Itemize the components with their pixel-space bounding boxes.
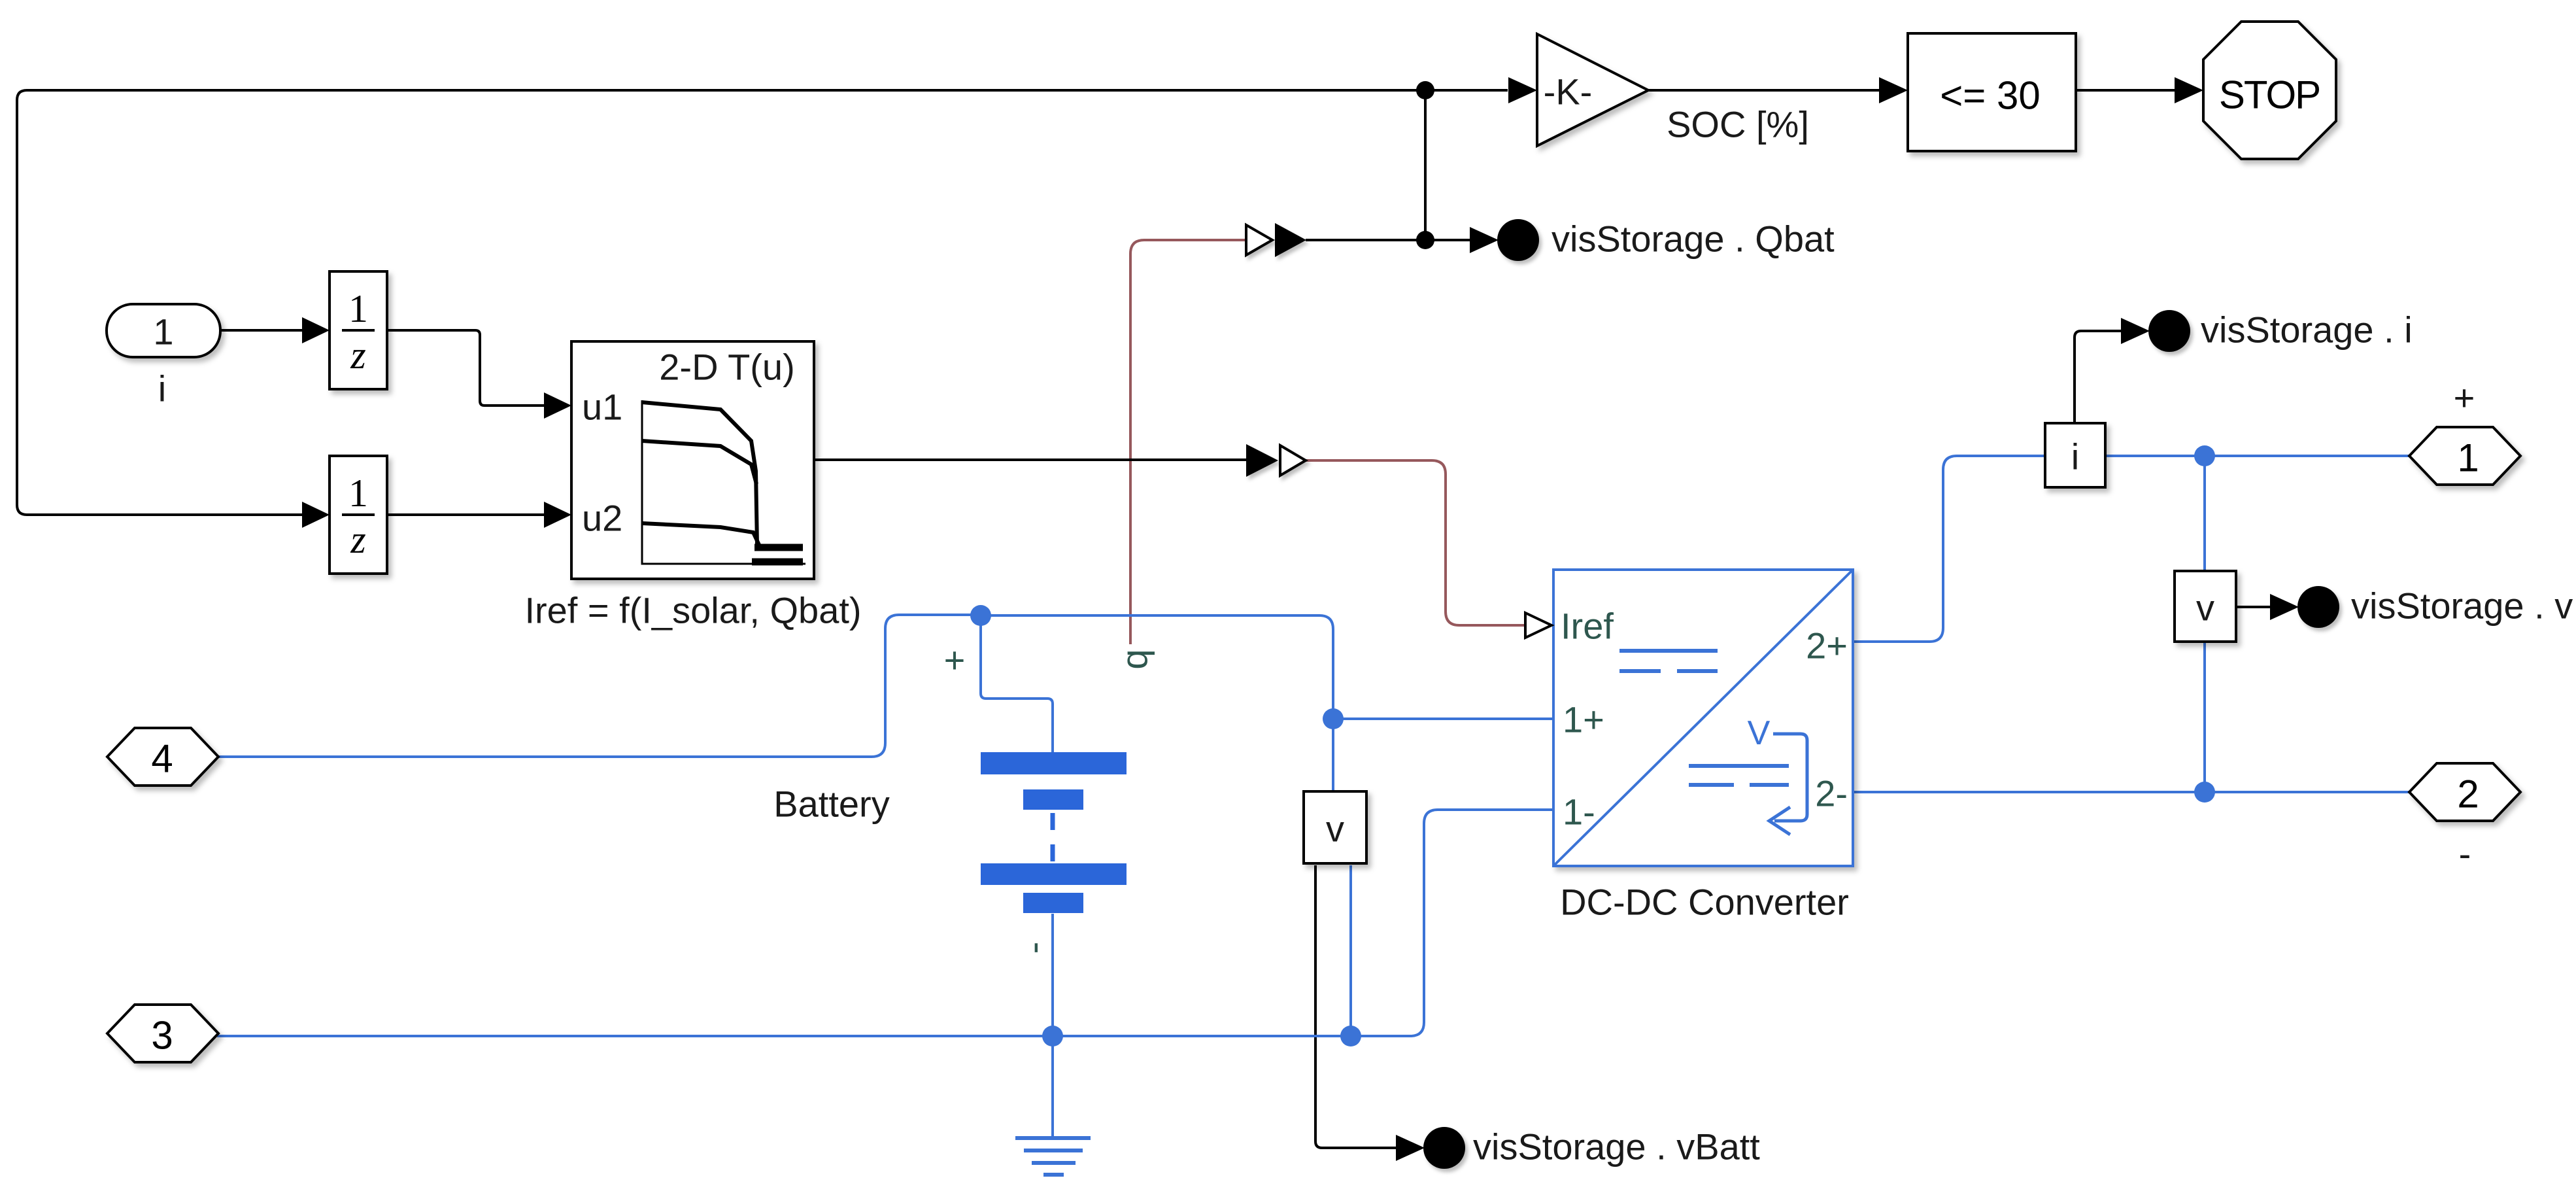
wire: current sensor i to visStorage.i <box>2075 331 2122 423</box>
wire: blue net from port 3 along bottom and up to converter 1- <box>217 810 1553 1036</box>
lookup table graph <box>642 400 805 564</box>
ground symbol <box>1015 1138 1091 1175</box>
wire: black feedback loop (top long wire + left vertical + into unit delay 2) <box>17 90 1508 515</box>
label: Battery <box>773 784 889 825</box>
block: unit delay 2 (1/z) <box>330 456 387 574</box>
svg-text:i: i <box>2071 436 2079 477</box>
svg-text:visStorage . vBatt: visStorage . vBatt <box>1473 1126 1760 1167</box>
converter port label 1+ <box>1563 699 1604 740</box>
svg-text:V: V <box>1748 714 1771 752</box>
block: STOP octagon <box>2203 22 2336 159</box>
wire: voltage sensor v to visStorage.v <box>2236 606 2270 608</box>
svg-text:1-: 1- <box>1563 791 1595 833</box>
arrowhead: into visStorage.v <box>2270 594 2299 620</box>
junction node: battery plus <box>970 605 991 626</box>
converter port label 1- <box>1563 791 1595 833</box>
label: minus below port 2 <box>2459 833 2471 874</box>
svg-text:z: z <box>350 334 365 377</box>
wire: blue converter 2+ output to current sensor i <box>1853 456 2045 642</box>
svg-text:2-: 2- <box>1815 773 1848 814</box>
block: unit delay 1 (1/z) <box>330 271 387 389</box>
signal conversion pair 1 (PS to Simulink): hollow + filled triangles <box>1246 223 1306 257</box>
svg-text:SOC [%]: SOC [%] <box>1667 104 1809 145</box>
wire: blue 1+ wire into converter <box>1333 718 1553 720</box>
label: SOC [%] <box>1667 104 1809 145</box>
converter port label Iref <box>1561 606 1614 647</box>
arrowhead: into gain <box>1508 77 1537 103</box>
wire: battery bottom plate to bottom net <box>1051 914 1054 1036</box>
svg-text:3: 3 <box>151 1014 173 1058</box>
converter port label 2- <box>1815 773 1848 814</box>
wire: PS charge signal q (dark red) from battery up to converter pair 1 <box>1130 240 1246 644</box>
wire: blue net battery plus node to converter 1+ corner <box>981 615 1333 719</box>
battery plates <box>981 752 1127 913</box>
wire: unit delay 2 to u2 input <box>387 513 544 516</box>
battery dashed electrolyte line <box>1051 813 1055 863</box>
block: relational operator <= 30 <box>1908 33 2076 151</box>
block: current sensor i <box>2045 423 2105 487</box>
port: output hexagon 2 <box>2409 763 2520 821</box>
converter DC symbol center <box>1689 766 1789 785</box>
svg-text:4: 4 <box>151 737 173 781</box>
svg-text:+: + <box>944 640 966 681</box>
svg-text:visStorage . i: visStorage . i <box>2201 309 2413 351</box>
svg-text:DC-DC Converter: DC-DC Converter <box>1560 882 1849 923</box>
block: DC-DC converter <box>1553 570 1853 866</box>
signal conversion pair 2 (Simulink to PS): filled + hollow triangles <box>1246 444 1306 477</box>
port: input hexagon 4 <box>107 728 218 786</box>
wire: vertical branch up from Qbat wire to top feedback wire <box>1424 90 1427 240</box>
svg-text:Iref = f(I_solar, Qbat): Iref = f(I_solar, Qbat) <box>524 590 861 631</box>
sink: visStorage.i <box>2148 309 2413 353</box>
wire: blue from 1+ node down to battery voltage sensor top <box>1332 719 1334 791</box>
wire: lookup table output to conversion pair 2 <box>814 458 1246 461</box>
block: battery voltage sensor v <box>1304 791 1366 863</box>
arrowhead: into u1 <box>544 392 571 419</box>
port: input hexagon 3 <box>107 1005 218 1062</box>
svg-text:2-D T(u): 2-D T(u) <box>659 347 794 388</box>
svg-text:1: 1 <box>348 472 368 515</box>
junction node: sensor bottom on bottom net <box>1340 1026 1361 1046</box>
wire: blue voltage sensor v to 2- net <box>2203 643 2206 792</box>
converter DC symbol upper left <box>1619 651 1718 671</box>
wire: blue net from port 4 up to battery plus node <box>218 615 981 757</box>
junction node: output port 2 branch <box>2194 782 2215 803</box>
svg-text:1: 1 <box>348 287 368 330</box>
port: output hexagon 1 <box>2409 427 2520 485</box>
converter Iref input triangle <box>1525 613 1551 638</box>
svg-text:1+: 1+ <box>1563 699 1604 740</box>
svg-text:STOP: STOP <box>2219 73 2320 117</box>
arrowhead: into relational operator <box>1879 77 1908 103</box>
wire: battery voltage sensor to visStorage.vBatt <box>1315 865 1397 1148</box>
wire: port1 to unit delay 1 <box>220 329 302 332</box>
arrowhead: into visStorage.i <box>2121 318 2150 344</box>
wire: relational operator to STOP <box>2076 89 2177 92</box>
svg-text:z: z <box>350 518 365 561</box>
svg-text:u1: u1 <box>582 387 622 428</box>
node label q (rotated) <box>1114 649 1155 669</box>
sink: visStorage.v <box>2297 585 2573 629</box>
wire: PS signal (dark red) from converter pair 2 to Iref port <box>1306 460 1525 625</box>
svg-text:q: q <box>1114 649 1155 669</box>
wire: blue from battery voltage sensor bottom to bottom net <box>1349 865 1352 1036</box>
junction node: output port 1 branch <box>2194 445 2215 466</box>
wire: bottom net to ground <box>1051 1036 1054 1137</box>
svg-text:visStorage . v: visStorage . v <box>2351 585 2573 627</box>
svg-text:1: 1 <box>153 311 173 353</box>
svg-text:1: 1 <box>2457 436 2479 480</box>
converter V feedback symbol <box>1748 714 1807 835</box>
block: gain -K- <box>1537 34 1648 146</box>
junction node: converter 1+ / sensor branch <box>1323 708 1344 729</box>
svg-text:Battery: Battery <box>773 784 889 825</box>
block: inport 1 (rounded) <box>107 304 220 357</box>
junction node: Qbat wire branch <box>1416 231 1434 249</box>
svg-text:-K-: -K- <box>1544 71 1593 112</box>
junction node: battery minus on bottom net <box>1042 1026 1063 1046</box>
wire: unit delay 1 to u1 input <box>387 330 544 406</box>
label: plus above port 1 <box>2454 377 2475 419</box>
svg-text:2+: 2+ <box>1806 625 1848 666</box>
sink: visStorage.vBatt <box>1423 1126 1760 1169</box>
wire: conversion pair 1 output to visStorage.Qbat <box>1306 239 1471 241</box>
sink: visStorage.Qbat <box>1497 218 1835 262</box>
svg-text:visStorage . Qbat: visStorage . Qbat <box>1551 218 1835 260</box>
label: Iref = f(I_solar, Qbat) <box>524 590 861 631</box>
arrowhead: into STOP <box>2175 77 2203 103</box>
arrowhead: into unit delay 2 <box>302 502 330 528</box>
wire: blue from plus node down to battery top plate <box>981 616 1053 752</box>
block: 2-D lookup table <box>571 341 814 579</box>
svg-text:u2: u2 <box>582 498 622 539</box>
battery minus label (rotated) <box>1013 942 1054 954</box>
battery plus label <box>944 640 966 681</box>
converter port label 2+ <box>1806 625 1848 666</box>
svg-text:-: - <box>2459 833 2471 874</box>
svg-text:v: v <box>1326 808 1344 850</box>
svg-text:Iref: Iref <box>1561 606 1614 647</box>
wire: blue converter 2- to output port 2 <box>1853 791 2411 793</box>
label: i under inport 1 <box>158 368 166 409</box>
svg-text:2: 2 <box>2457 772 2479 816</box>
wire: gain output to relational operator <box>1648 89 1882 92</box>
arrowhead: into u2 <box>544 502 571 528</box>
arrowhead: into unit delay 1 <box>302 317 330 343</box>
label: DC-DC Converter <box>1560 882 1849 923</box>
svg-text:i: i <box>158 368 166 409</box>
wire: blue current sensor to output port 1 <box>2105 455 2411 457</box>
arrowhead: into visStorage.Qbat <box>1470 227 1499 253</box>
svg-text:+: + <box>2454 377 2475 419</box>
junction node: top feedback wire branch <box>1416 81 1434 99</box>
svg-text:-: - <box>1013 942 1054 954</box>
wire: blue branch down to voltage sensor v <box>2203 456 2206 570</box>
svg-text:<= 30: <= 30 <box>1940 74 2041 118</box>
svg-text:v: v <box>2196 587 2214 629</box>
block: voltage sensor v <box>2175 571 2236 642</box>
arrowhead: into visStorage.vBatt <box>1396 1135 1425 1161</box>
